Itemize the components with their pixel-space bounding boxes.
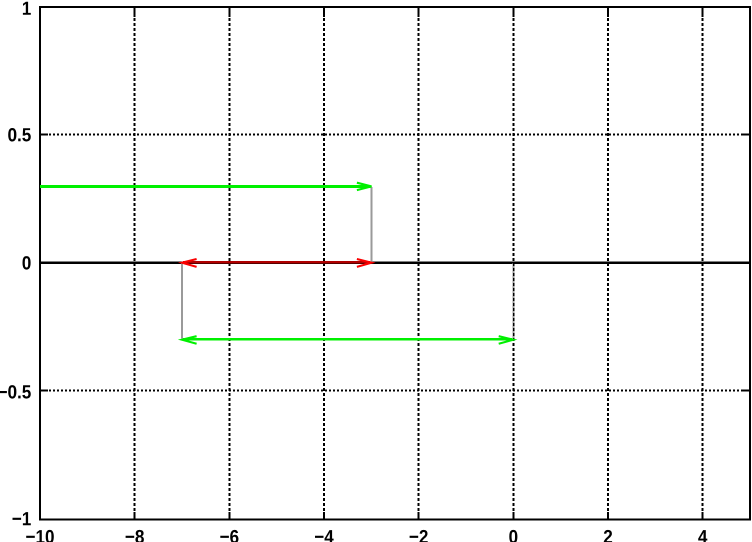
x label 2 xyxy=(604,530,612,542)
right ticks xyxy=(742,134,749,136)
x label -10 xyxy=(26,530,54,542)
y label -0.5 xyxy=(0,385,31,399)
gray connector at x=-7 xyxy=(181,263,183,339)
dotted gridline overlay on x=0 connector xyxy=(513,263,515,339)
gray connector at x=0 xyxy=(512,263,514,339)
vertical dotted gridlines xyxy=(135,8,703,519)
x label -2 xyxy=(410,530,428,542)
y label -1 xyxy=(13,512,31,525)
green double-headed arrow at y=-0.3 from x=-7 to x=0 xyxy=(182,336,513,344)
y label 0 xyxy=(23,256,31,270)
green arrow at y=0.3 from x=-10 to x=-3, head at right xyxy=(40,183,372,190)
x label 4 xyxy=(698,530,707,542)
top ticks xyxy=(134,8,136,17)
left ticks xyxy=(41,134,48,136)
x label -8 xyxy=(126,530,144,542)
horizontal dotted gridlines xyxy=(41,135,749,391)
y label 0.5 xyxy=(8,128,31,142)
bottom ticks xyxy=(134,512,136,519)
gray connector at x=-3 xyxy=(371,187,373,262)
x label 0 xyxy=(509,530,517,542)
x label -4 xyxy=(315,530,334,542)
x-axis zero line xyxy=(41,261,749,264)
red double-headed arrow at y=0 from x=-7 to x=-3 xyxy=(182,259,372,267)
y label 1 xyxy=(23,2,31,15)
x label -6 xyxy=(220,530,238,542)
